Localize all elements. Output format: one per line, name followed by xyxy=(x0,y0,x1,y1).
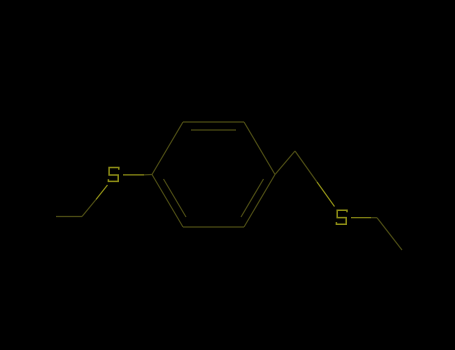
bond S1 to ring C1, dark half xyxy=(144,174,152,176)
benzene ring bottom edge xyxy=(183,226,244,228)
bond CH2b to S2, bright half xyxy=(317,182,335,207)
bond CH2c to CH3c xyxy=(377,218,402,250)
bond ring C4 to CH2b xyxy=(275,151,295,175)
bond S1 to CH2a, dark half xyxy=(82,200,96,217)
bond S2 to CH2c, dark half xyxy=(371,217,377,219)
sulfur atom label S1 xyxy=(108,168,118,182)
bond CH2a to CH3a xyxy=(56,216,82,218)
bond S1 to CH2a, bright half xyxy=(96,185,108,200)
benzene ring upper-left edge xyxy=(152,122,183,175)
double bond inner line (top edge) xyxy=(191,129,236,131)
bond S1 to ring C1, bright half xyxy=(123,174,144,176)
sulfur atom label S2 xyxy=(336,210,347,224)
benzene ring top edge xyxy=(183,121,244,123)
double bond inner line (lower-right edge) xyxy=(241,179,264,217)
bond CH2b to S2, dark half xyxy=(295,151,317,182)
benzene ring lower-left edge xyxy=(152,175,183,228)
double bond inner line (lower-left edge) xyxy=(164,179,187,217)
benzene ring lower-right edge xyxy=(244,175,275,228)
bond S2 to CH2c, bright half xyxy=(351,217,371,219)
benzene ring upper-right edge xyxy=(244,122,275,175)
